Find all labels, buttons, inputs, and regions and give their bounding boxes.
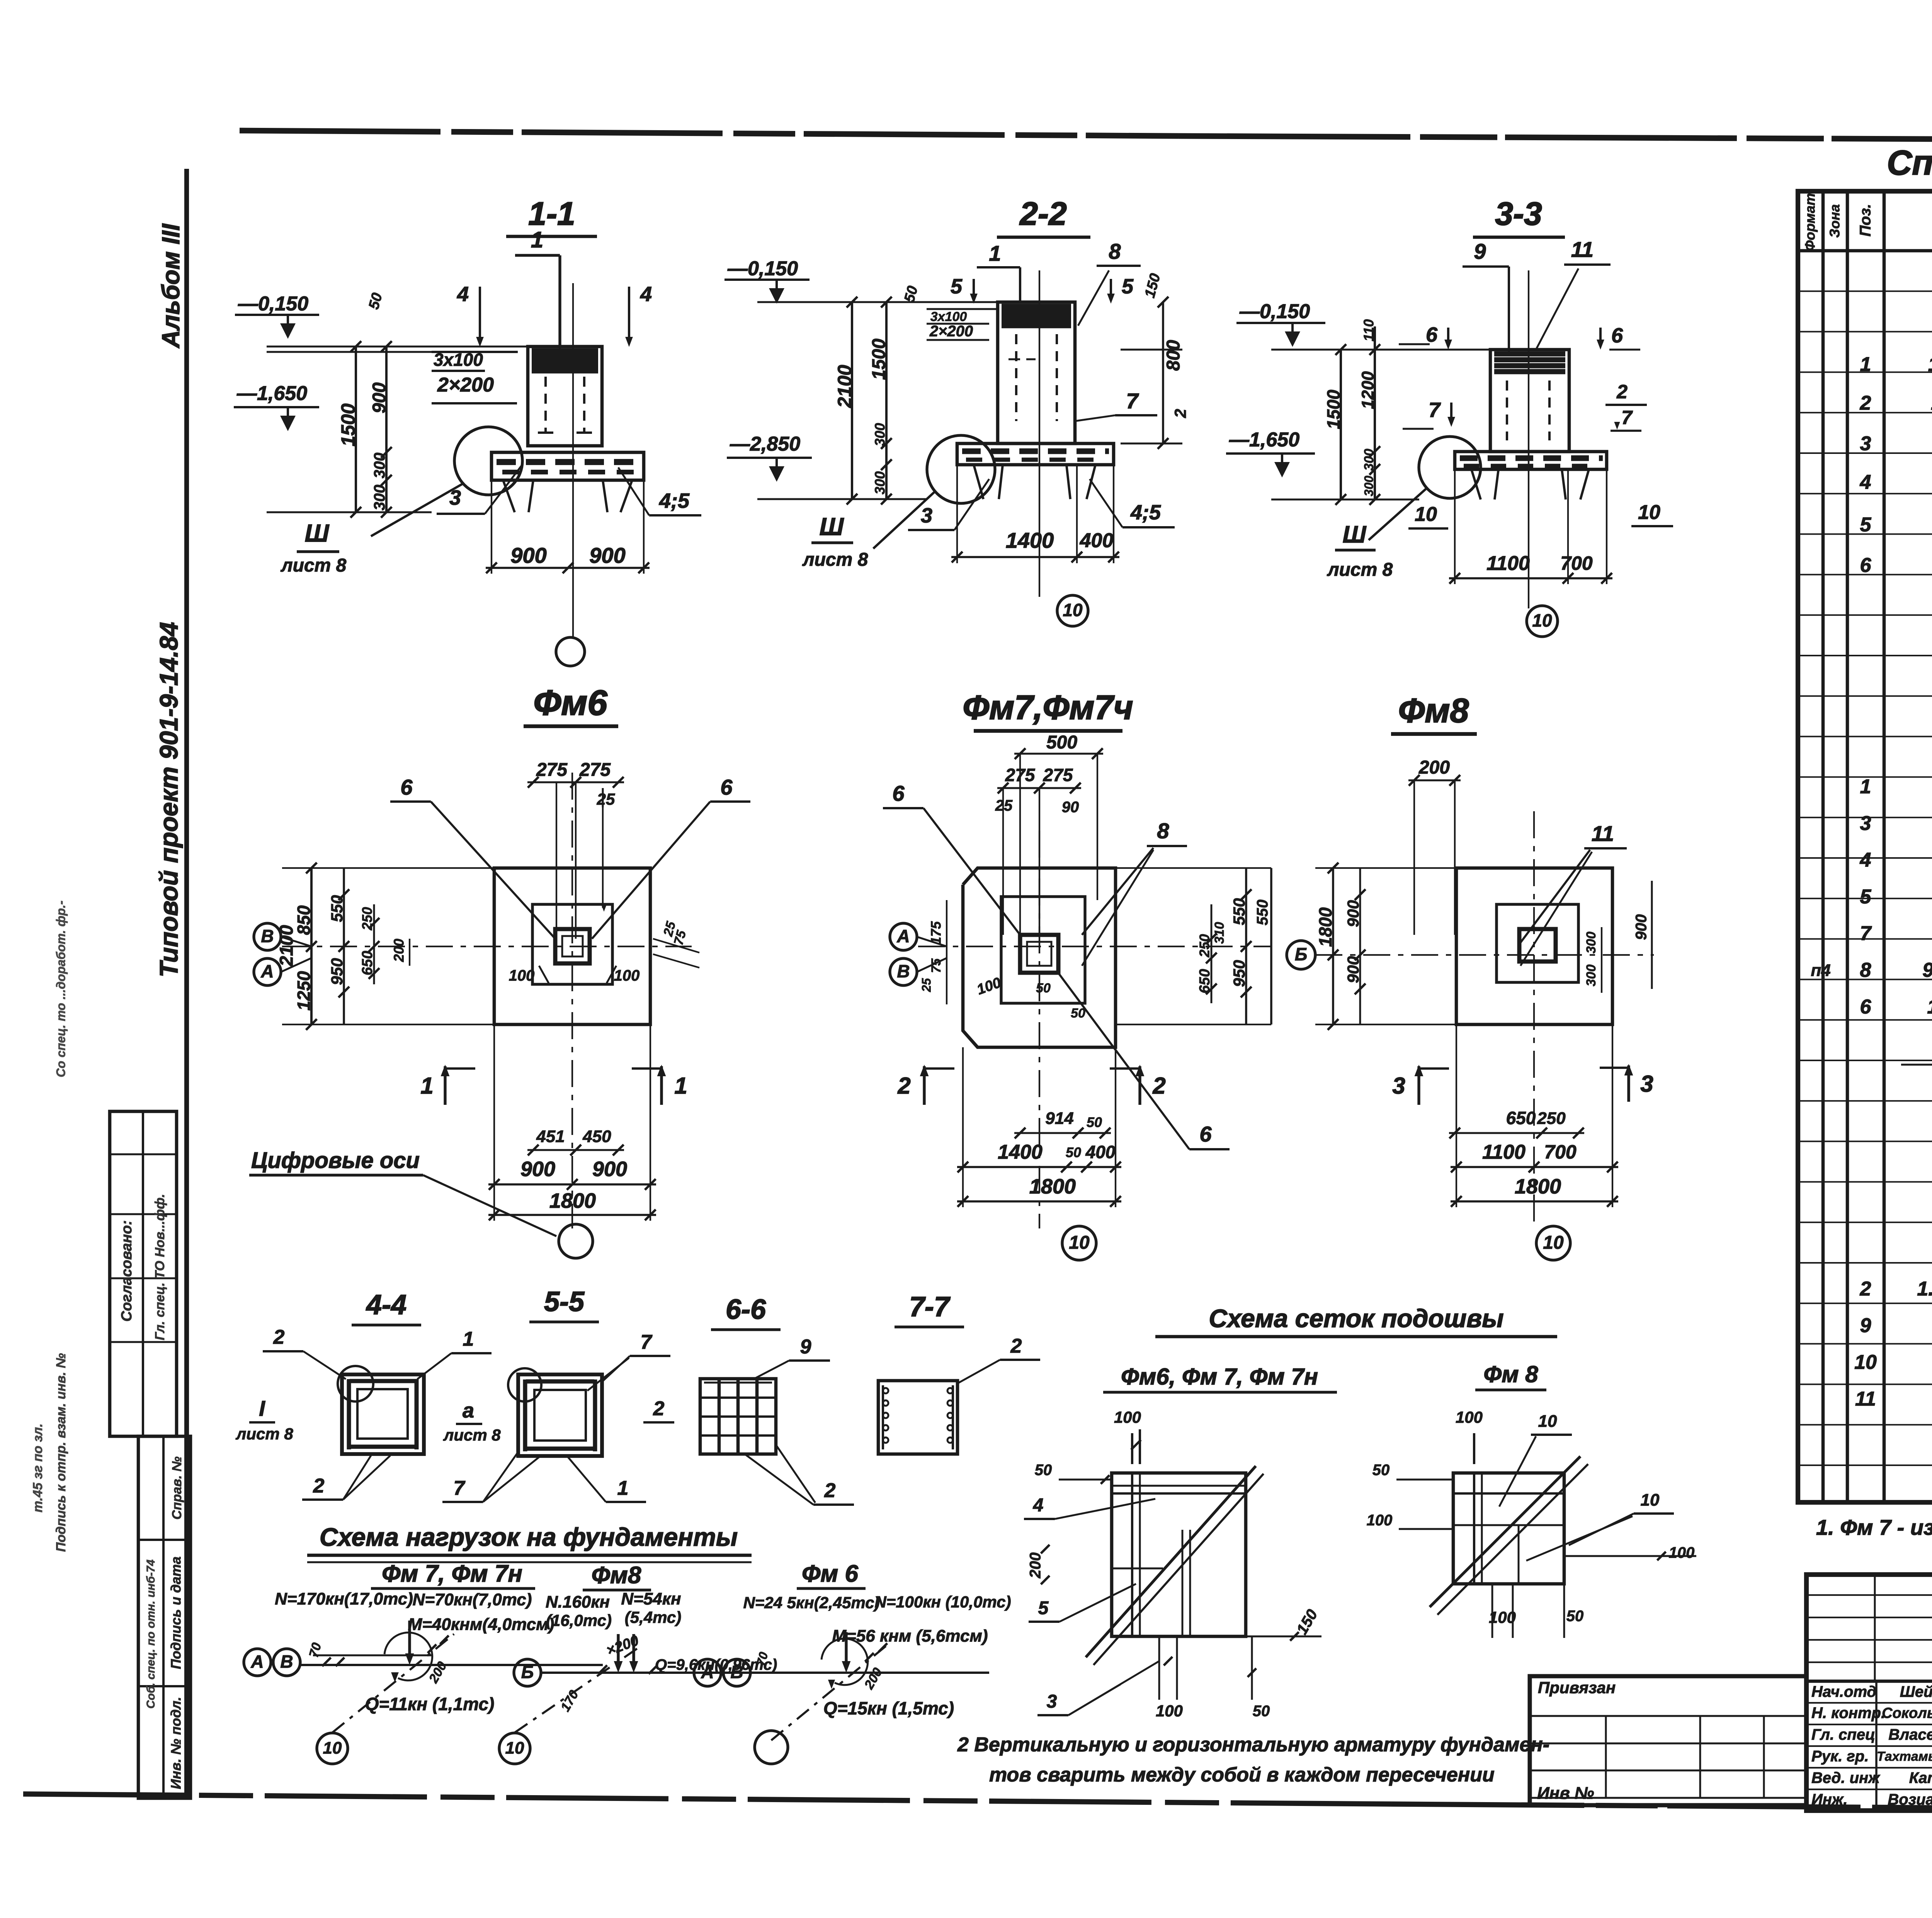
section 3-3 leader 10 right: [1631, 501, 1673, 526]
svg-text:Ш: Ш: [305, 519, 330, 547]
svg-text:10: 10: [1415, 503, 1437, 526]
plan Fm7 left small dims 175 75 25: [919, 900, 947, 1004]
section 2-2 elevation -2,850: [727, 433, 812, 482]
section 3-3 marker 7 and labels 2 7: [1403, 381, 1647, 431]
margin signature stamp table: [138, 1436, 190, 1798]
spec row 9 Fm8: [1860, 1315, 1932, 1337]
svg-text:75: 75: [929, 958, 944, 973]
plan Fm7 top dimension 500: [1014, 732, 1103, 935]
svg-text:6-6: 6-6: [726, 1294, 766, 1325]
specification table grid: [1798, 191, 1932, 1502]
svg-text:1: 1: [617, 1477, 629, 1500]
svg-text:1800: 1800: [1515, 1175, 1561, 1198]
svg-text:4;5: 4;5: [1130, 501, 1161, 524]
svg-text:Поз.: Поз.: [1857, 204, 1874, 237]
svg-text:—0,150: —0,150: [727, 258, 798, 280]
svg-text:2: 2: [824, 1480, 836, 1502]
section 1-1 label 50 and spacing 3x100 2x200: [366, 291, 518, 403]
section 7-7 label 2: [958, 1335, 1040, 1383]
section 1-1 elevation -1,650: [234, 382, 319, 431]
section 5-5 labels: [442, 1331, 670, 1502]
section 2-2 base slab with rebar: [957, 443, 1114, 465]
svg-text:М=56 кнм (5,6тсм): М=56 кнм (5,6тсм): [832, 1627, 988, 1646]
plan Fm7 pedestal outline: [1001, 897, 1085, 1003]
section 2-2 dimension chain 1500/300/300: [869, 297, 892, 505]
svg-text:лист 8: лист 8: [443, 1426, 501, 1444]
svg-text:Фм8: Фм8: [1398, 691, 1469, 729]
section 1-1 mesh marker 4 left: [457, 282, 484, 347]
svg-text:2: 2: [1860, 392, 1871, 415]
svg-text:300: 300: [872, 471, 888, 494]
svg-text:Справ. №: Справ. №: [170, 1456, 184, 1519]
load scheme Fm6 axes A B: [694, 1659, 750, 1686]
svg-text:Формат: Формат: [1802, 193, 1818, 251]
section 2-2 base legs: [974, 465, 1095, 499]
svg-text:11: 11: [1855, 1388, 1876, 1410]
load scheme title: [307, 1522, 752, 1562]
svg-text:900: 900: [1344, 956, 1362, 983]
svg-text:Тахтамышева: Тахтамышева: [1877, 1749, 1932, 1764]
svg-text:3-3: 3-3: [1495, 195, 1542, 232]
svg-text:100: 100: [614, 967, 640, 984]
svg-text:900: 900: [1633, 914, 1650, 940]
load scheme Fm8 axis circle 10: [499, 1733, 530, 1764]
svg-text:2: 2: [1152, 1073, 1165, 1099]
spec row 2 Fm8: [1860, 1278, 1932, 1300]
svg-text:2: 2: [653, 1398, 665, 1420]
load scheme Fm7 axes A B: [244, 1649, 300, 1676]
svg-text:100: 100: [1669, 1544, 1695, 1561]
spec row 5 Fm7: [1860, 886, 1932, 908]
svg-text:Подпись к отпр. взам. инв. №: Подпись к отпр. взам. инв. №: [54, 1353, 68, 1552]
plan Fm8 axis lines: [1315, 811, 1654, 1228]
spec row materialy 2: [1901, 1062, 1932, 1093]
svg-text:1100: 1100: [1486, 552, 1530, 575]
svg-text:Со спец. то ...доработ. фр.-: Со спец. то ...доработ. фр.-: [54, 900, 68, 1077]
svg-text:лист 8: лист 8: [1327, 560, 1393, 580]
svg-text:7: 7: [1429, 398, 1441, 421]
svg-text:6: 6: [892, 781, 905, 805]
section 3-3 detail circle III: [1369, 437, 1481, 540]
svg-text:Зона: Зона: [1827, 204, 1843, 238]
svg-text:1: 1: [420, 1073, 433, 1099]
svg-text:900: 900: [592, 1157, 627, 1181]
svg-text:1500: 1500: [337, 403, 359, 446]
svg-text:1400: 1400: [1006, 528, 1054, 552]
load scheme Fm6 title: [797, 1560, 866, 1588]
svg-text:Возианов: Возианов: [1888, 1791, 1932, 1808]
plan Fm6 inner leader 100 100: [509, 966, 640, 984]
svg-text:2100: 2100: [834, 365, 855, 408]
svg-text:Н. контр.: Н. контр.: [1811, 1705, 1885, 1722]
rotated margin text Альбом III: [157, 223, 185, 348]
svg-text:(16,0тс): (16,0тс): [546, 1611, 612, 1629]
svg-text:700: 700: [1544, 1141, 1577, 1163]
svg-text:90: 90: [1062, 799, 1079, 816]
svg-text:а: а: [463, 1399, 474, 1422]
plan Fm6 leader 6 left: [390, 775, 555, 939]
svg-text:650: 650: [1506, 1108, 1536, 1128]
svg-text:4: 4: [457, 282, 469, 306]
plan Fm8 section marks 3 3: [1392, 1064, 1653, 1105]
load scheme Fm6 values: [743, 1593, 1011, 1646]
svg-text:110: 110: [1361, 319, 1377, 341]
plan Fm7 leader 6 top-left: [883, 781, 1020, 935]
svg-text:3х100: 3х100: [930, 309, 967, 324]
svg-text:(5,4тс): (5,4тс): [625, 1608, 682, 1626]
svg-text:1. Фм 7 - изображена, Фм 7Н: 1. Фм 7 - изображена, Фм 7Н - зеркальное…: [1816, 1515, 1932, 1539]
svg-text:1: 1: [463, 1328, 474, 1351]
svg-text:N=100кн (10,0тс): N=100кн (10,0тс): [874, 1593, 1011, 1611]
mesh scheme left diagram: [1024, 1408, 1321, 1720]
svg-text:А: А: [250, 1651, 264, 1672]
svg-text:7-7: 7-7: [909, 1291, 951, 1322]
svg-text:10: 10: [1069, 1233, 1090, 1253]
svg-text:Фм 8: Фм 8: [1483, 1361, 1538, 1387]
welding note line 2: [989, 1764, 1495, 1786]
svg-text:900: 900: [520, 1157, 555, 1181]
svg-text:5: 5: [1860, 886, 1872, 908]
load scheme Fm6 axis circle: [755, 1731, 788, 1764]
plan Fm6 pedestal outline: [532, 904, 612, 984]
svg-text:5: 5: [1038, 1598, 1049, 1619]
spec row 1 Fm7: [1860, 776, 1932, 798]
svg-text:10: 10: [1543, 1233, 1564, 1253]
svg-text:250: 250: [1197, 934, 1213, 958]
svg-text:1200: 1200: [1359, 371, 1378, 409]
section 3-3 dimension chain 110/1200/300: [1359, 319, 1380, 505]
svg-text:1250: 1250: [294, 971, 314, 1011]
plan Fm8 title: [1391, 691, 1477, 734]
section 2-2 cut labels 1 and 8: [977, 239, 1141, 326]
svg-text:I: I: [259, 1396, 265, 1420]
section 1-1 bottom axis circle: [556, 637, 585, 666]
svg-text:1: 1: [1860, 353, 1871, 376]
sheet top border line: [240, 131, 1932, 142]
plan Fm7 title: [963, 688, 1133, 731]
svg-text:11: 11: [1592, 821, 1614, 846]
svg-text:тов сварить между собой в кажд: тов сварить между собой в каждом пересеч…: [989, 1764, 1495, 1786]
svg-text:10: 10: [323, 1739, 342, 1758]
svg-text:В: В: [261, 926, 274, 946]
svg-text:1500: 1500: [1323, 389, 1344, 429]
load scheme Fm7 axis circle 10: [317, 1733, 348, 1764]
plan Fm7 leader 8 right: [1082, 819, 1187, 966]
svg-text:Подпись и дата: Подпись и дата: [168, 1556, 184, 1669]
svg-text:5: 5: [1860, 514, 1872, 536]
load scheme Fm6 Q value: [823, 1698, 954, 1718]
plan Fm6 leader 6 right: [592, 775, 750, 939]
svg-text:250: 250: [1537, 1109, 1566, 1128]
svg-text:Цифровые оси: Цифровые оси: [251, 1148, 420, 1173]
section 3-3 cut labels 9 and 11: [1463, 237, 1611, 350]
plan Fm7 column outline: [1020, 935, 1058, 973]
welding note line 1: [957, 1734, 1549, 1756]
svg-text:В: В: [897, 961, 910, 981]
svg-text:3: 3: [1392, 1073, 1405, 1099]
svg-text:175: 175: [928, 921, 944, 945]
svg-text:—0,150: —0,150: [238, 293, 308, 315]
plan Fm7 top dimension 275 275 25 90: [995, 765, 1081, 935]
svg-text:М=40кнм(4,0тсм): М=40кнм(4,0тсм): [408, 1615, 554, 1634]
section 2-2 bottom axis circle 10: [1057, 595, 1088, 626]
svg-text:N.160кн: N.160кн: [546, 1593, 610, 1612]
svg-text:1400: 1400: [998, 1141, 1043, 1164]
svg-text:275: 275: [1005, 765, 1036, 785]
spec row 4 Fm7: [1860, 849, 1932, 872]
section 2-2 right dimension 800/150: [1121, 297, 1189, 449]
svg-text:1: 1: [531, 227, 543, 252]
svg-text:6: 6: [1199, 1122, 1212, 1146]
section 6-6 mesh drawing: [700, 1379, 776, 1454]
svg-text:В: В: [280, 1651, 293, 1672]
section 1-1 dimension chain 900/300/300: [369, 341, 392, 518]
section 2-2 detail label III лист 8: [802, 513, 868, 570]
section 1-1 left dimension chain 1500: [337, 341, 361, 518]
svg-text:5-5: 5-5: [544, 1286, 585, 1317]
svg-text:100: 100: [1367, 1512, 1393, 1529]
section 1-1 base legs: [503, 480, 632, 512]
section 1-1 base slab with rebar: [492, 452, 644, 480]
svg-text:100: 100: [1456, 1408, 1483, 1426]
svg-text:3: 3: [1860, 433, 1871, 455]
svg-text:1.412-1/77 вып. 3-020: 1.412-1/77 вып. 3-020: [1928, 353, 1932, 376]
svg-text:901-9-14. 84 -кжи-мн1: 901-9-14. 84 -кжи-мн1: [1922, 959, 1932, 982]
svg-text:Фм6: Фм6: [533, 683, 607, 722]
svg-text:275: 275: [536, 760, 568, 780]
svg-text:Инв №: Инв №: [1537, 1784, 1594, 1803]
mesh scheme subtitle Fm6 Fm7 Fm7n: [1103, 1364, 1337, 1392]
section 3-3 bottom dimension 1100 700: [1449, 469, 1612, 584]
svg-text:275: 275: [579, 760, 611, 780]
svg-text:А: А: [260, 961, 274, 981]
section 2-2 dimension chain 2100: [834, 297, 857, 505]
svg-text:Нач.отд: Нач.отд: [1811, 1684, 1876, 1701]
svg-text:4;5: 4;5: [659, 489, 690, 512]
svg-text:10: 10: [1538, 1412, 1557, 1431]
svg-text:2: 2: [313, 1475, 325, 1497]
mesh scheme title: [1155, 1304, 1557, 1337]
svg-text:450: 450: [582, 1127, 611, 1146]
plan Fm6 axis lines: [282, 773, 692, 1228]
section 7-7 drawing: [878, 1381, 957, 1454]
svg-text:Вед. инж: Вед. инж: [1811, 1770, 1881, 1787]
svg-text:Сокольская: Сокольская: [1882, 1705, 1932, 1721]
section 6-6 title: [711, 1294, 781, 1330]
svg-text:Гл. спец. ТО Нов...фф.: Гл. спец. ТО Нов...фф.: [153, 1194, 167, 1340]
section 3-3 base legs: [1471, 469, 1589, 499]
plan Fm8 column outline: [1519, 929, 1556, 962]
section 2-2 pedestal with top mesh: [998, 302, 1075, 443]
svg-text:6: 6: [1426, 323, 1438, 346]
load scheme Fm8 values: [546, 1590, 681, 1629]
svg-text:Схема нагрузок на фундаменты: Схема нагрузок на фундаменты: [320, 1522, 738, 1551]
plan Fm8 bottom dimensions: [1449, 1024, 1618, 1207]
section 2-2 leader 3: [908, 479, 989, 530]
svg-text:3: 3: [1860, 812, 1871, 835]
svg-text:900: 900: [1344, 900, 1362, 927]
svg-text:Б: Б: [1295, 944, 1308, 964]
svg-text:т.45 зг по зл.: т.45 зг по зл.: [31, 1424, 45, 1512]
section 3-3 pedestal with top mesh: [1490, 350, 1569, 452]
svg-text:50: 50: [1066, 1145, 1081, 1160]
spec row 1 Fm6: [1860, 353, 1932, 376]
svg-text:лист 8: лист 8: [281, 556, 347, 576]
section 2-2 title: [997, 195, 1090, 237]
section 2-2 level lines: [757, 302, 998, 499]
svg-text:—1,650: —1,650: [236, 382, 307, 405]
svg-text:300: 300: [371, 485, 388, 511]
svg-text:Шейко: Шейко: [1900, 1684, 1932, 1701]
section 1-1 title: [506, 195, 597, 236]
svg-text:—2,850: —2,850: [730, 433, 800, 455]
svg-text:950: 950: [328, 958, 346, 985]
svg-text:1100: 1100: [1482, 1141, 1526, 1164]
svg-text:10: 10: [1638, 501, 1660, 524]
svg-text:Инж.: Инж.: [1811, 1791, 1848, 1808]
svg-text:3: 3: [1640, 1071, 1653, 1097]
svg-text:Q=11кн (1,1тс): Q=11кн (1,1тс): [365, 1694, 495, 1714]
svg-text:2×200: 2×200: [929, 323, 973, 340]
plan Fm8 pedestal outline: [1497, 904, 1578, 982]
svg-text:2: 2: [273, 1326, 285, 1349]
svg-text:N=24 5кн(2,45тс): N=24 5кн(2,45тс): [743, 1594, 879, 1612]
plan Fm6 section marks 1 1: [420, 1065, 687, 1105]
spec row 5 Fm6: [1860, 514, 1932, 536]
plan Fm6 left dimension chains: [277, 863, 494, 1030]
section 1-1 elevation -0,150: [235, 293, 319, 339]
svg-text:Кат: Кат: [1909, 1770, 1932, 1787]
svg-text:10: 10: [505, 1739, 524, 1758]
plan Fm7 inner labels 100 50: [975, 975, 1085, 1021]
specification table headers: [1802, 193, 1932, 251]
svg-text:11: 11: [1571, 237, 1594, 262]
section 3-3 dimension chain 1500: [1323, 344, 1346, 505]
section 2-2 bottom dimension 1400 400: [951, 465, 1119, 563]
svg-text:310: 310: [1212, 922, 1227, 944]
plan Fm8 axis circle Б: [1287, 941, 1315, 969]
section 1-1 bottom dimension 900 900: [486, 480, 650, 574]
svg-text:300: 300: [872, 423, 888, 446]
section 1-1 detail circle III: [371, 427, 522, 536]
svg-text:9: 9: [1860, 1315, 1871, 1337]
plan Fm8 outer slab outline: [1456, 868, 1612, 1024]
svg-text:Ш: Ш: [820, 513, 844, 540]
spec row 3 Fm6: [1860, 433, 1932, 455]
section 3-3 title: [1473, 195, 1565, 237]
rotated margin text Типовой проект 901-9-14.84: [154, 622, 183, 977]
svg-text:275: 275: [1043, 765, 1073, 785]
svg-text:Альбом III: Альбом III: [157, 223, 185, 348]
svg-text:Q=15кн (1,5тс): Q=15кн (1,5тс): [823, 1698, 954, 1718]
plan Fm6 numeric axes note: [249, 1148, 556, 1236]
plan Fm6 axis circles B A: [254, 923, 311, 985]
plan Fm7 right dimension chains: [1116, 868, 1271, 1024]
plan Fm7 axis circles A B: [890, 923, 947, 985]
title block names grid: [1806, 1681, 1932, 1811]
plan Fm7 section marks 2 2: [897, 1065, 1165, 1105]
svg-text:7: 7: [1860, 922, 1872, 945]
svg-text:3: 3: [449, 486, 461, 509]
title block person names: [1877, 1684, 1932, 1808]
svg-text:10: 10: [1641, 1491, 1660, 1510]
section 1-1 mesh marker 4 right: [625, 282, 652, 347]
section 3-3 leader 10 left: [1408, 503, 1448, 528]
section 2-2 detail circle III: [873, 435, 995, 549]
svg-text:1800: 1800: [1029, 1175, 1076, 1198]
plan Fm6 title: [524, 683, 618, 726]
svg-text:10: 10: [1854, 1351, 1877, 1374]
plan Fm6 bottom dimensions: [488, 1024, 656, 1221]
svg-text:4: 4: [640, 282, 652, 306]
section 3-3 detail label III лист 8: [1327, 521, 1393, 580]
load scheme Fm7 beam diagram: [300, 1621, 603, 1733]
svg-text:Ш: Ш: [1343, 521, 1367, 548]
svg-text:10: 10: [1063, 600, 1083, 620]
section 2-2 elevation -0,150: [724, 258, 810, 304]
spec row 6 Fm7: [1860, 996, 1932, 1018]
svg-text:400: 400: [1085, 1142, 1116, 1162]
svg-text:N=54кн: N=54кн: [621, 1590, 681, 1609]
svg-text:2: 2: [1860, 1278, 1871, 1300]
svg-text:400: 400: [1080, 530, 1114, 552]
spec row 6 Fm6: [1860, 554, 1932, 577]
svg-text:Фм7,Фм7ч: Фм7,Фм7ч: [963, 688, 1133, 726]
spec row 4 Fm6: [1860, 471, 1932, 494]
load scheme Fm8 title: [583, 1562, 651, 1590]
svg-text:2-2: 2-2: [1019, 195, 1066, 232]
section 3-3 column axis line: [1509, 270, 1529, 608]
svg-text:7: 7: [1621, 407, 1633, 428]
svg-text:1-1: 1-1: [528, 195, 575, 232]
svg-text:3: 3: [921, 504, 932, 527]
plan Fm6 top dimension 275 275 25: [527, 760, 624, 939]
svg-text:300: 300: [1362, 449, 1376, 471]
svg-text:Согласовано:: Согласовано:: [119, 1220, 135, 1322]
svg-text:200: 200: [1418, 758, 1450, 778]
plan Fm8 leader 11: [1520, 821, 1627, 966]
mesh scheme subtitle Fm8: [1475, 1361, 1546, 1390]
svg-text:1: 1: [989, 241, 1001, 265]
section 2-2 leader 7: [1075, 389, 1157, 421]
svg-text:Схема сеток подошвы: Схема сеток подошвы: [1209, 1304, 1503, 1332]
section 7-7 title: [895, 1291, 964, 1327]
section 2-2 column axis line: [1039, 270, 1040, 597]
svg-text:8: 8: [1860, 959, 1871, 982]
svg-text:2: 2: [1616, 381, 1628, 403]
svg-text:50: 50: [1372, 1462, 1390, 1479]
svg-text:1.412-1/тт вып. 3-100: 1.412-1/тт вып. 3-100: [1917, 1278, 1932, 1300]
plan Fm8 right small dims 300 300 900: [1584, 881, 1652, 993]
svg-text:1800: 1800: [1315, 907, 1335, 947]
svg-text:451: 451: [536, 1127, 565, 1146]
load scheme Fm8 beam diagram: [515, 1633, 811, 1733]
svg-text:200: 200: [1027, 1553, 1044, 1579]
svg-text:Фм 6: Фм 6: [802, 1560, 858, 1587]
svg-text:5: 5: [1122, 275, 1134, 298]
section 1-1 detail label III лист 8: [281, 519, 347, 576]
svg-text:2: 2: [1171, 409, 1189, 418]
svg-text:6: 6: [400, 775, 413, 799]
plan Fm7 axis lines: [918, 831, 1271, 1228]
svg-text:п4: п4: [1811, 961, 1830, 980]
spec row 2 Fm6: [1860, 392, 1932, 415]
svg-text:900: 900: [589, 543, 625, 567]
sheet bottom border line: [23, 1794, 1932, 1813]
svg-text:300: 300: [371, 453, 388, 479]
svg-text:4: 4: [1033, 1495, 1044, 1516]
svg-text:300: 300: [1584, 965, 1599, 987]
